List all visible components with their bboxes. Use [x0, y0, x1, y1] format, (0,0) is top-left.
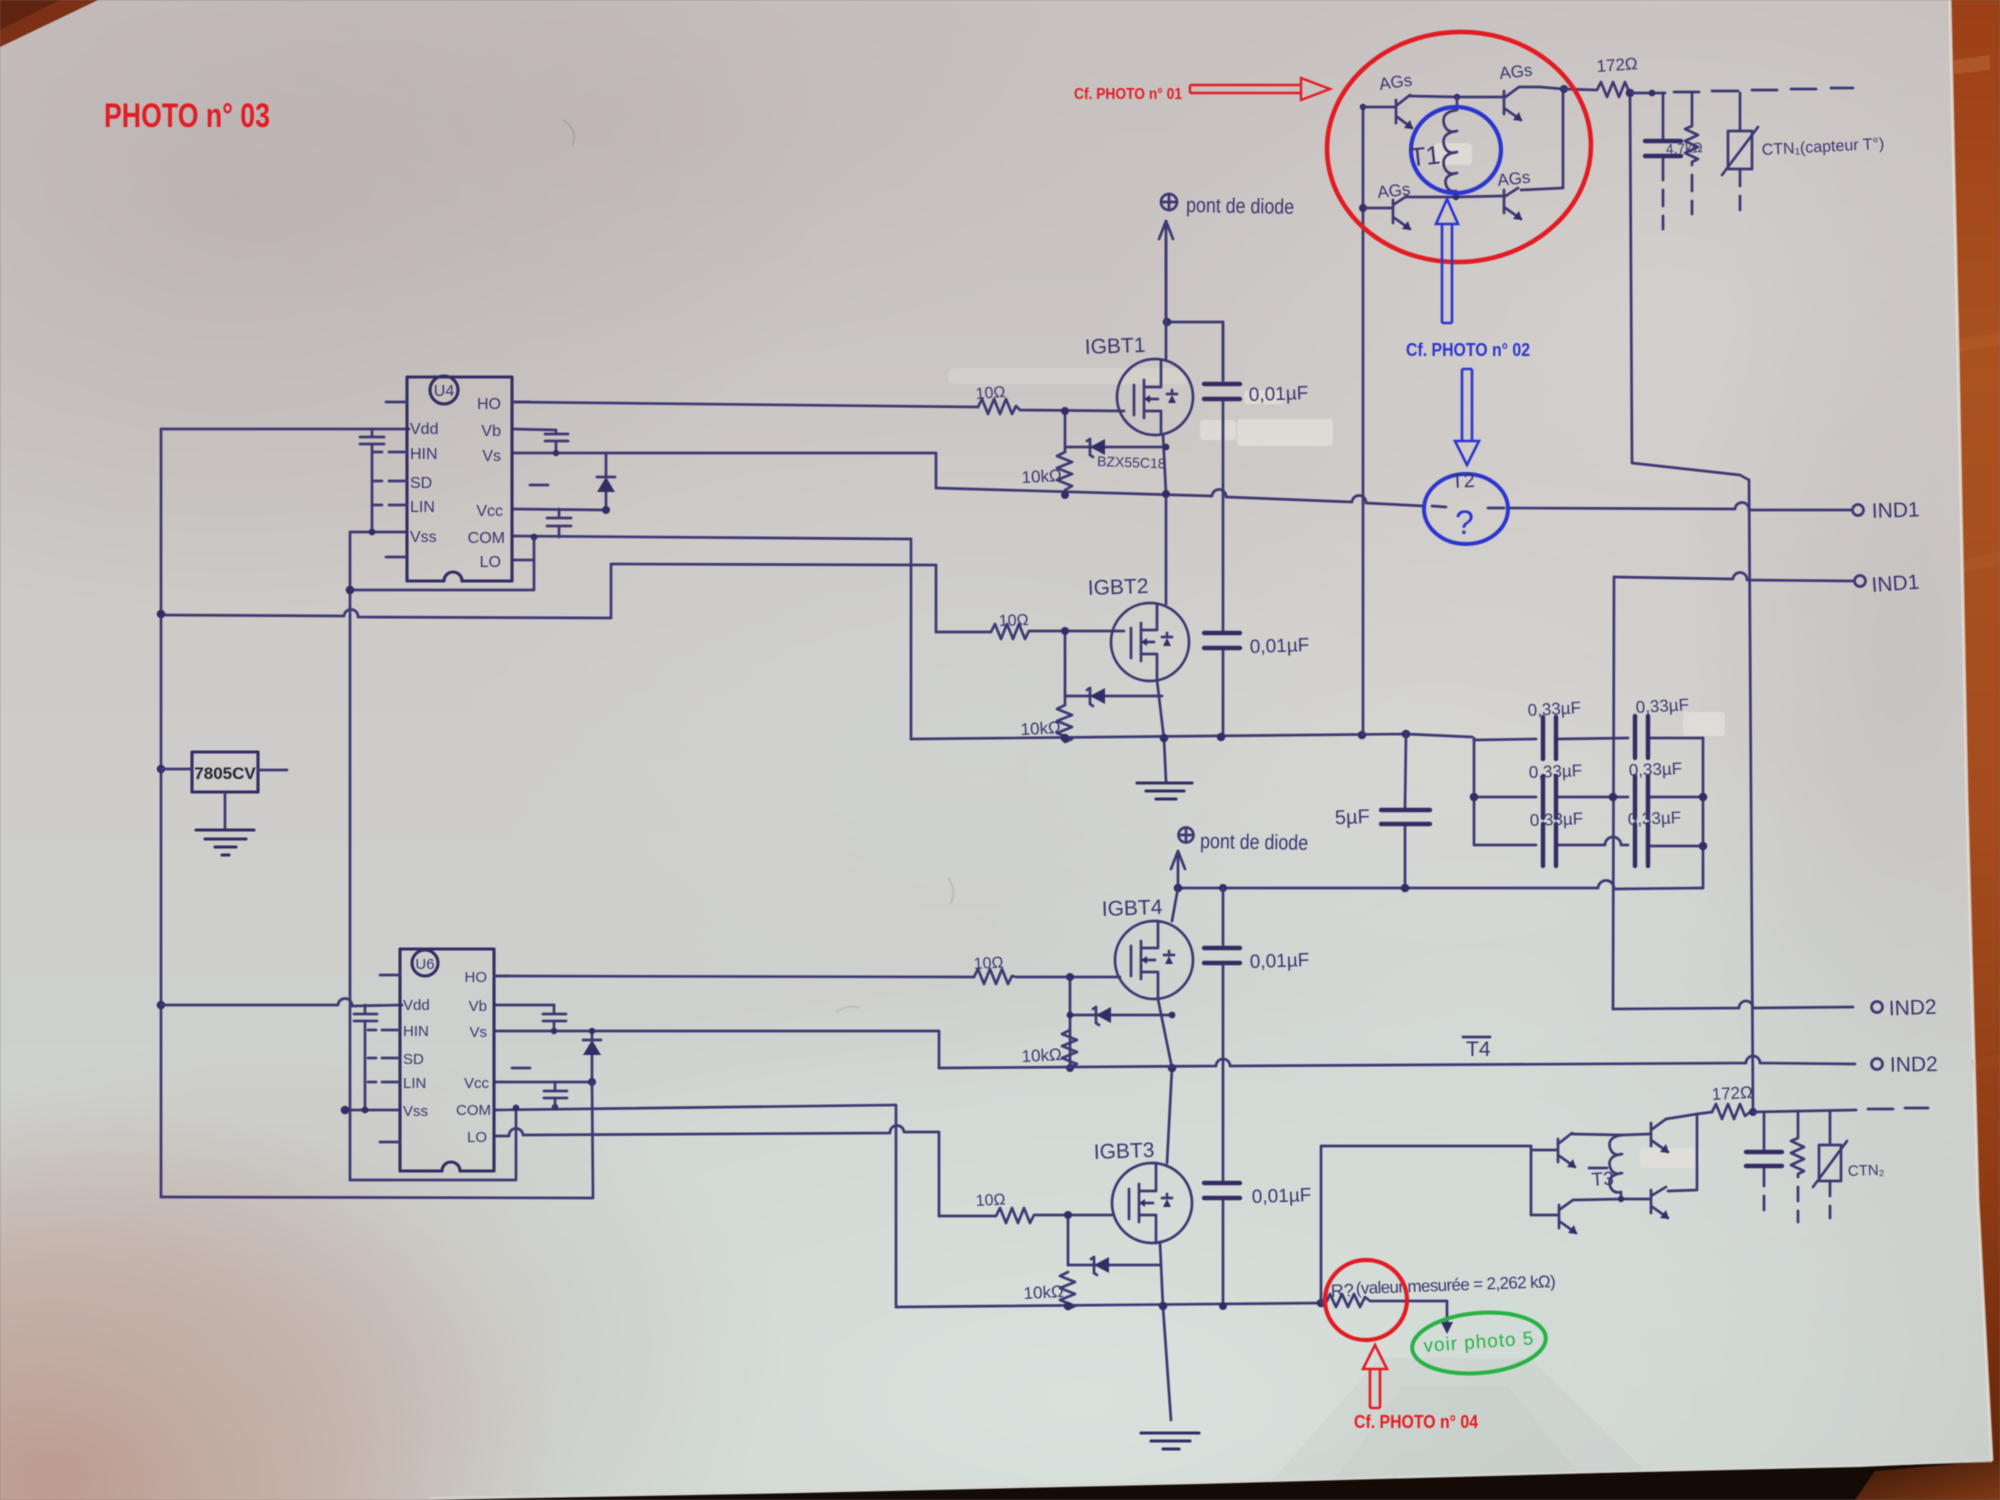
svg-text:0,33µF: 0,33µF [1627, 808, 1681, 829]
svg-text:U4: U4 [434, 383, 455, 400]
resistor 10R IGBT4 gate [974, 969, 1120, 984]
svg-text:AGs: AGs [1376, 180, 1411, 202]
ground IGBT3 [1141, 1433, 1199, 1449]
wire IND2 a line [1613, 1001, 1853, 1009]
junction left rail dots [157, 610, 166, 619]
plus pont de diode 2 [1179, 828, 1194, 843]
capacitor 0.01uF IGBT2 [1204, 633, 1240, 648]
junction zener4 [1067, 1012, 1074, 1019]
wire gate node IGBT2 down [1064, 631, 1067, 705]
capacitor 0.01uF IGBT1 [1204, 384, 1240, 399]
wire HO row U6 [494, 976, 974, 977]
junction gate2 [1061, 627, 1069, 635]
junction bridge base top [1360, 104, 1366, 110]
svg-text:Cf. PHOTO n° 04: Cf. PHOTO n° 04 [1354, 1412, 1478, 1432]
wire Vs row U6 step [494, 1031, 939, 1068]
wire node to CTN hangers [1630, 92, 1665, 95]
svg-text:10kΩ: 10kΩ [1020, 718, 1061, 739]
svg-text:10kΩ: 10kΩ [1021, 466, 1062, 487]
terminal IND1 b [1855, 576, 1866, 587]
resistor 10R IGBT3 gate [939, 1208, 1112, 1223]
junction diode U6 top [589, 1028, 595, 1034]
capacitor 0.33uF r2c1 [1543, 776, 1556, 818]
svg-text:0,01µF: 0,01µF [1248, 383, 1308, 406]
svg-text:LIN: LIN [410, 499, 435, 516]
wire gate node IGBT3 down [1067, 1215, 1070, 1265]
IGBT4 internal symbol [1131, 921, 1174, 999]
dashes under cap CTN1 [1662, 190, 1665, 229]
wire rail B bottom corner [350, 1106, 516, 1180]
resistor 10R IGBT1 gate [978, 399, 1124, 414]
svg-text:AGs: AGs [1496, 168, 1531, 190]
wire Vs row U4 to step [512, 453, 936, 488]
wire left supply rail [160, 429, 163, 1197]
capacitor Vcc-COM U6 [544, 1082, 567, 1107]
svg-text:IND1: IND1 [1871, 498, 1920, 523]
wire LO pin stub U4 [512, 559, 534, 562]
svg-text:Vs: Vs [482, 448, 501, 465]
svg-text:HIN: HIN [403, 1023, 429, 1040]
junction 172R-2 node [1749, 1108, 1757, 1116]
transistor AGs bottom-right [1504, 188, 1521, 219]
pin stubs U4 left [374, 402, 407, 557]
svg-text:LO: LO [467, 1129, 487, 1146]
inductor T1 coil [1444, 97, 1457, 196]
junction T4 line column [1168, 1064, 1177, 1073]
wire cap bank row2 [1474, 796, 1703, 799]
resistor CTN2 vertical [1791, 1111, 1804, 1222]
svg-text:U6: U6 [415, 956, 434, 973]
wire T4 IND2 line [939, 1056, 1855, 1068]
svg-text:IND1: IND1 [1871, 571, 1920, 597]
wire IGBT2 source to ground [1157, 680, 1166, 781]
junction Vcc diode [588, 1078, 596, 1086]
capacitor 0.33uF r3c1 [1543, 824, 1556, 866]
capacitor CTN2 filter [1763, 1112, 1766, 1210]
junction lower rail 5uF [1401, 884, 1410, 893]
junction T3 coil bottom [1618, 1196, 1624, 1202]
dashes under resistor CTN1 [1691, 175, 1694, 214]
IC U6 designator circle [412, 950, 438, 976]
svg-text:pont de diode: pont de diode [1186, 194, 1294, 219]
wire bottom left rail [161, 1082, 593, 1198]
svg-text:10Ω: 10Ω [975, 384, 1006, 403]
diode bootstrap U4 [597, 453, 615, 510]
wire T3 bottom row [1573, 1199, 1649, 1200]
svg-text:0,01µF: 0,01µF [1249, 635, 1309, 658]
junction bank row2 left [1470, 793, 1479, 802]
arrow blue down to T2 [1455, 369, 1479, 465]
wood top-left corner [0, 0, 98, 47]
junction bank row2 right [1699, 793, 1708, 802]
junction zener1 right [1163, 444, 1170, 451]
svg-text:Vcc: Vcc [464, 1075, 490, 1092]
wire gate node IGBT4 down [1069, 977, 1072, 1068]
wire cap bank row3 [1474, 837, 1703, 846]
wire HO row U4 to gate resistor [512, 402, 978, 407]
IGBT3 internal symbol [1129, 1163, 1172, 1243]
ground IGBT2 [1137, 783, 1192, 799]
junction lower rail left [1174, 884, 1183, 893]
svg-text:HO: HO [477, 396, 501, 413]
wire T3 input line [1321, 1146, 1531, 1303]
capacitor 0.33uF r1c1 [1543, 717, 1556, 759]
transistor AGs bottom-left [1363, 196, 1410, 229]
svg-text:BZX55C18: BZX55C18 [1097, 453, 1166, 471]
wire cap bank row1 [1474, 738, 1703, 740]
white-out patches [948, 143, 1725, 1168]
capacitor bank frame right [1702, 738, 1705, 888]
paper edge highlights [1950, 0, 1992, 1461]
resistor 10R IGBT2 gate [936, 624, 1124, 639]
svg-text:IGBT4: IGBT4 [1101, 896, 1163, 921]
svg-text:0,33µF: 0,33µF [1527, 698, 1581, 720]
wire T3 top row [1572, 1134, 1649, 1135]
circle red around R? [1322, 1257, 1411, 1344]
resistor 10k IGBT3 [1060, 1272, 1075, 1309]
wire TR collector to node [1519, 87, 1563, 89]
wire lower top rail [1178, 880, 1703, 889]
plus pont de diode 1 [1161, 194, 1177, 210]
wire Vcc row U4 [512, 509, 606, 510]
junction gate1 [1061, 407, 1069, 415]
junction lower rail cap column [1219, 884, 1227, 892]
svg-text:SD: SD [403, 1051, 424, 1068]
svg-text:7805CV: 7805CV [194, 764, 256, 783]
svg-text:pont de diode: pont de diode [1200, 830, 1308, 855]
svg-text:AGs: AGs [1498, 61, 1533, 83]
wire feed 172R node down [1630, 97, 1749, 480]
svg-text:IGBT2: IGBT2 [1087, 575, 1148, 600]
wire 7805 ground [224, 792, 227, 828]
svg-text:172Ω: 172Ω [1711, 1083, 1753, 1104]
transistor T3 top-right [1651, 1119, 1668, 1152]
svg-text:IND2: IND2 [1888, 996, 1937, 1021]
junction gate4 [1066, 973, 1074, 981]
arrow pont de diode 2 [1171, 851, 1185, 888]
wire tall vertical x1613 [1613, 577, 1614, 1009]
resistor 172R bottom [1712, 1104, 1750, 1119]
wire bridge right side [1521, 89, 1563, 190]
wire bridge bottom row [1407, 196, 1502, 197]
junction gate3 [1064, 1211, 1072, 1219]
wire T3 base rail [1530, 1146, 1533, 1215]
transistor T3 top-left [1531, 1133, 1575, 1167]
junction COM U6 [513, 1105, 520, 1112]
pin stubs U4 right [512, 402, 548, 485]
arrow red to bridge [1190, 78, 1330, 100]
svg-text:R?: R? [1330, 1280, 1354, 1301]
junction bottom rail dots [1064, 1302, 1073, 1311]
svg-text:10Ω: 10Ω [973, 954, 1004, 973]
IGBT2 circle [1111, 603, 1189, 681]
arrow red up to R? [1363, 1345, 1387, 1408]
svg-text:5µF: 5µF [1335, 806, 1371, 829]
junction 10k4 bottom [1066, 1064, 1074, 1072]
capacitor bank frame left [1473, 738, 1476, 844]
svg-text:CTN₂: CTN₂ [1848, 1162, 1885, 1180]
svg-text:Vdd: Vdd [410, 421, 438, 438]
circle T2 blue [1424, 474, 1508, 544]
camera shadow bottom-center [1255, 1358, 1675, 1500]
capacitor 0.33uF r1c2 [1635, 716, 1648, 758]
resistor 10k IGBT2 [1057, 705, 1072, 742]
IGBT1 internal symbol [1134, 360, 1177, 434]
wire main column lower [1158, 888, 1178, 1420]
wire TR to 172R-2 [1666, 1112, 1712, 1119]
pin stubs U6 right [494, 976, 530, 1068]
svg-text:COM: COM [456, 1102, 491, 1119]
wire T3 right side [1668, 1114, 1697, 1191]
svg-text:?: ? [1455, 504, 1474, 542]
svg-text:IGBT3: IGBT3 [1093, 1139, 1154, 1164]
transistor AGs top-right [1504, 87, 1521, 120]
capacitor CTN1 filter [1662, 93, 1665, 180]
junction coil bottom [1453, 194, 1459, 200]
svg-text:T1: T1 [1408, 139, 1441, 172]
resistor 10k IGBT4 [1062, 1030, 1077, 1067]
capacitor bootstrap Vb-Vs U4 [512, 429, 568, 453]
zener IGBT2 [1065, 688, 1162, 706]
junction 172R right [1626, 89, 1635, 98]
terminal IND2 a [1872, 1002, 1883, 1013]
svg-text:4,7kΩ: 4,7kΩ [1665, 139, 1703, 157]
wire bridge base rail T1 [1362, 107, 1365, 735]
wire gate node IGBT1 down [1064, 411, 1067, 452]
svg-text:Vss: Vss [410, 529, 437, 546]
wire IND1 net long line [936, 488, 1852, 510]
resistor 172R top [1564, 82, 1630, 97]
resistor 10k IGBT1 [1057, 452, 1072, 492]
wire bridge top row [1410, 96, 1503, 97]
wire main column IGBT1 to IGBT2 [1163, 238, 1166, 604]
wire Vdd row U4 [161, 428, 409, 431]
capacitor 0.33uF r2c2 [1635, 776, 1648, 818]
wire bottom rail lower half [896, 1303, 1321, 1307]
capacitor Vcc-COM U4 [547, 509, 571, 537]
transistor AGs top-left [1363, 95, 1412, 128]
svg-text:T3: T3 [1591, 1168, 1615, 1190]
IC U4 box [407, 377, 512, 581]
svg-text:Vs: Vs [469, 1024, 487, 1041]
transistor T3 bottom-right [1651, 1187, 1668, 1218]
arrow blue up to T1 [1436, 199, 1458, 323]
svg-text:10kΩ: 10kΩ [1021, 1045, 1062, 1066]
junction Vs bootstrap [551, 1028, 557, 1034]
ground 7805 [196, 830, 254, 855]
svg-text:0,33µF: 0,33µF [1635, 695, 1689, 717]
svg-text:10Ω: 10Ω [999, 612, 1029, 630]
svg-text:Vb: Vb [469, 998, 487, 1015]
wire Vss row U6 [345, 1109, 400, 1112]
capacitor 0.01uF IGBT3 [1204, 1183, 1240, 1198]
terminal IND1 a [1853, 505, 1864, 516]
svg-text:T4: T4 [1466, 1038, 1491, 1061]
arrow pont de diode 1 [1159, 221, 1173, 322]
zener IGBT3 [1068, 1257, 1160, 1275]
IGBT3 circle [1112, 1163, 1192, 1243]
svg-text:LO: LO [480, 554, 501, 571]
junction Vss U6 [341, 1106, 350, 1115]
circle blue around T1 coil [1411, 107, 1501, 193]
svg-text:T2: T2 [1451, 470, 1475, 493]
IGBT4 circle [1115, 921, 1193, 999]
capacitor 0.01uF IGBT4 [1204, 948, 1240, 963]
svg-text:Vss: Vss [403, 1103, 428, 1120]
resistor R? [1321, 1294, 1447, 1322]
svg-text:Cf. PHOTO n° 02: Cf. PHOTO n° 02 [1406, 340, 1530, 360]
zener BZX55C18 IGBT1 [1065, 439, 1166, 457]
capacitor bootstrap U6 [543, 1005, 566, 1031]
wire Vcc row U6 [494, 1081, 593, 1084]
svg-text:COM: COM [468, 530, 505, 547]
wire top rail to cap1 [1167, 322, 1223, 379]
inductor T3 coil [1610, 1135, 1623, 1198]
resistor 4.7k CTN1 [1685, 93, 1698, 165]
wire COM ground rail to caps [911, 734, 1472, 739]
diode bootstrap U6 [583, 1031, 601, 1082]
svg-text:0,33µF: 0,33µF [1529, 809, 1583, 830]
junction bridge out node [1560, 85, 1568, 93]
svg-text:10kΩ: 10kΩ [1023, 1282, 1064, 1303]
capacitor Vdd bypass U4 [360, 429, 384, 532]
svg-text:0,33µF: 0,33µF [1628, 759, 1682, 780]
wire LO row U6 [494, 1125, 939, 1216]
svg-text:Vb: Vb [481, 423, 501, 440]
svg-text:PHOTO n° 03: PHOTO n° 03 [104, 97, 270, 135]
junction cap CTN1 [1649, 90, 1656, 97]
svg-text:172Ω: 172Ω [1596, 54, 1638, 76]
thermistor CTN1 [1739, 93, 1742, 131]
IGBT1 circle [1117, 359, 1193, 435]
wire IND1 b line [1614, 572, 1854, 581]
svg-text:10Ω: 10Ω [975, 1191, 1006, 1210]
svg-text:0,01µF: 0,01µF [1251, 1185, 1311, 1208]
bottom shadow band under paper edge [430, 1459, 2000, 1500]
svg-text:IGBT1: IGBT1 [1084, 334, 1145, 359]
ellipse green voir photo 5 [1410, 1307, 1549, 1378]
wire CTN2 output line [1753, 1108, 1928, 1112]
svg-text:Vcc: Vcc [476, 503, 503, 520]
capacitor 5uF [1405, 734, 1406, 888]
regulator 7805CV [192, 752, 258, 792]
terminal IND2 b [1872, 1059, 1883, 1070]
junction COM rail dots [1061, 734, 1070, 743]
junction bank row3 right [1699, 842, 1708, 851]
wire Vdd row U6 [161, 998, 402, 1006]
pin stubs U6 left [368, 975, 400, 1142]
capacitor 0.33uF r3c2 [1635, 824, 1648, 866]
svg-text:0,33µF: 0,33µF [1528, 761, 1582, 782]
circle red around T1 bridge [1321, 25, 1597, 269]
wire rail B vertical [349, 532, 352, 1180]
thermistor CTN2 [1829, 1111, 1832, 1145]
junction top rail [1163, 318, 1172, 327]
IC U6 box [400, 949, 494, 1171]
wire U4 LO loop [350, 537, 534, 590]
IC U4 designator circle [430, 376, 458, 404]
wire Vss row U4 [351, 531, 407, 534]
capacitor Vdd bypass U6 [354, 1005, 377, 1110]
wire 7805 input [161, 768, 192, 771]
wire Vb row U6 [494, 1004, 554, 1007]
junction 10k1 bottom [1061, 491, 1069, 499]
wood table right edge [1853, 0, 2000, 1500]
wire lower signal y617 [161, 564, 936, 632]
scratch marks [563, 120, 574, 146]
svg-text:Vdd: Vdd [403, 997, 430, 1014]
zener IGBT4 [1070, 1007, 1172, 1025]
junction source IGBT1 [1162, 490, 1170, 498]
wire right tall vertical to 172R-2 [1749, 480, 1753, 1110]
junction bank row2 mid [1609, 793, 1618, 802]
svg-text:SD: SD [410, 475, 432, 492]
wire 7805 output stub [258, 769, 287, 772]
junction bridge base bottom [1359, 204, 1367, 212]
svg-text:HIN: HIN [410, 446, 438, 463]
IGBT2 internal symbol [1131, 604, 1172, 680]
svg-text:0,01µF: 0,01µF [1249, 950, 1309, 973]
svg-text:Cf. PHOTO n° 01: Cf. PHOTO n° 01 [1074, 86, 1182, 103]
svg-text:HO: HO [465, 969, 488, 986]
wire cap column lower half [1222, 888, 1225, 1305]
svg-text:IND2: IND2 [1890, 1053, 1938, 1077]
wire COM row U6 [494, 1105, 896, 1307]
transistor T3 bottom-left [1531, 1200, 1576, 1233]
junction coil top [1454, 94, 1460, 100]
svg-text:LIN: LIN [403, 1075, 426, 1092]
wire COM row U4 [512, 536, 911, 739]
wire supply dashed top-right [1674, 88, 1853, 92]
